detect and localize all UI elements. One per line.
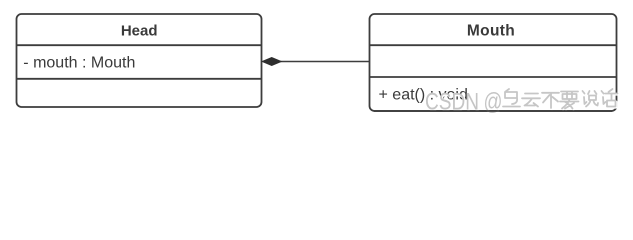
Head title divider bbox=[17, 44, 262, 46]
Mouth title divider bbox=[370, 44, 617, 46]
composition diamond (filled, at Head end) bbox=[262, 58, 281, 66]
svg-text:Mouth: Mouth bbox=[467, 23, 515, 40]
svg-text:- mouth : Mouth: - mouth : Mouth bbox=[23, 54, 135, 71]
Head attribute: - mouth : Mouth bbox=[23, 54, 135, 71]
svg-text:Head: Head bbox=[121, 23, 158, 40]
wire (composition edge Head to Mouth) bbox=[279, 61, 370, 63]
gray glyph layer bbox=[503, 89, 618, 109]
Mouth methods divider bbox=[370, 76, 617, 78]
watermark CSDN @ (latin part) bbox=[425, 89, 503, 117]
watermark hanzi 乌云不要说话 (hand-drawn paths) bbox=[503, 89, 619, 110]
Mouth method: + eat() : void bbox=[379, 86, 468, 103]
Mouth title text bbox=[467, 23, 515, 40]
Head title text bbox=[121, 23, 158, 40]
class Head (box) bbox=[17, 14, 262, 107]
class Mouth (box) bbox=[370, 14, 617, 111]
Mouth box bottom border (redrawn over watermark) bbox=[374, 110, 612, 112]
white drop shadow layer bbox=[504, 90, 619, 110]
Head methods divider bbox=[17, 78, 262, 80]
